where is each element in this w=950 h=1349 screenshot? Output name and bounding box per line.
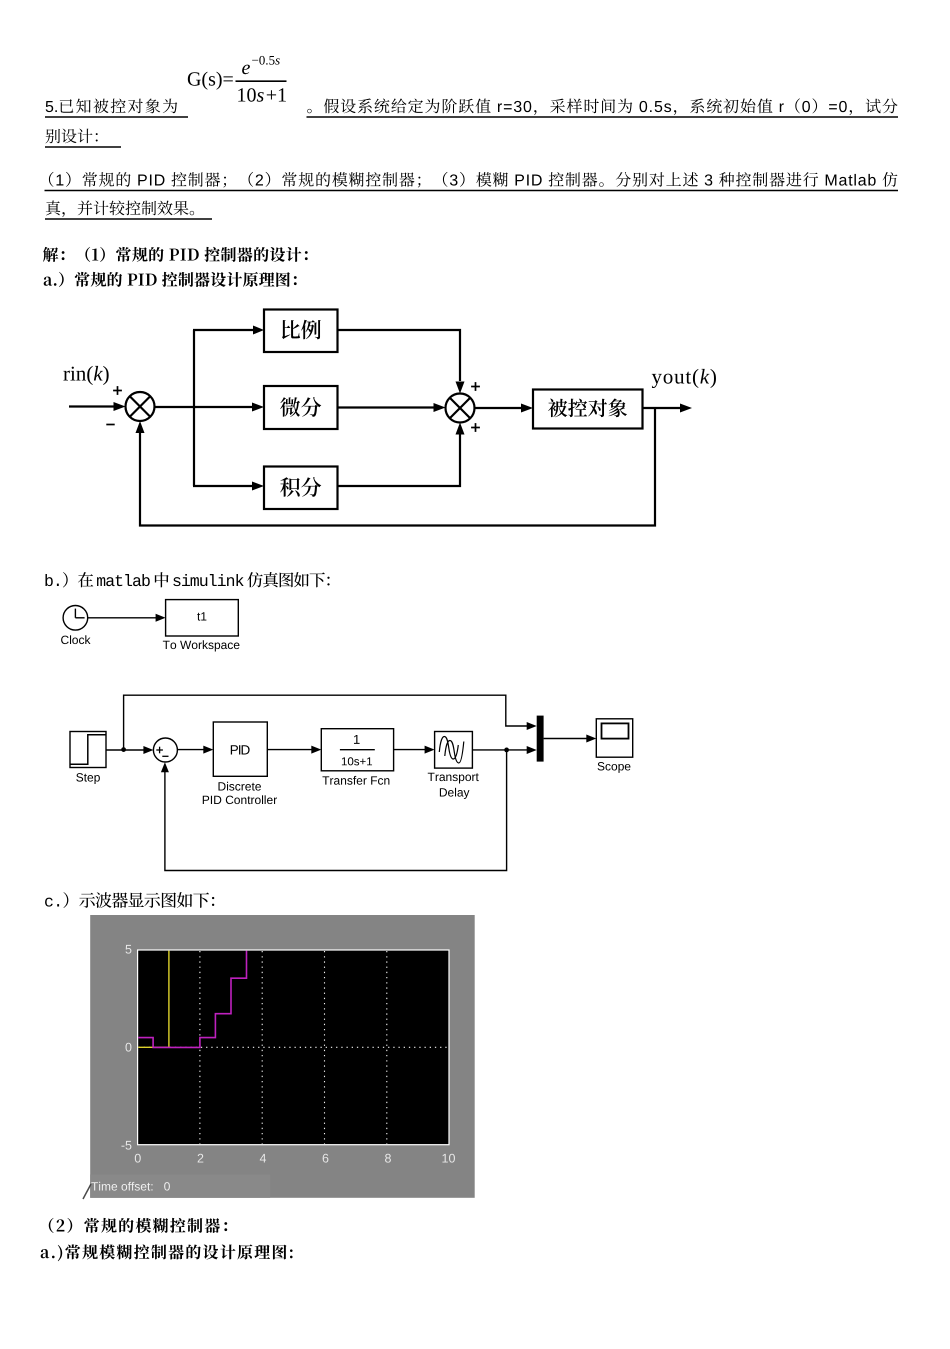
wire proportional to S2	[338, 330, 465, 394]
clock block	[63, 606, 88, 631]
mux bar	[537, 716, 544, 762]
grid line x=8	[386, 951, 388, 1144]
wire mux to scope	[544, 735, 597, 743]
wire S1 to branch and derivative box	[155, 403, 265, 412]
xtick 2	[198, 1154, 204, 1163]
transport delay block	[435, 732, 473, 769]
line1 right: assume step r=30	[307, 98, 897, 115]
xtick 4	[260, 1154, 266, 1163]
wire plant output	[643, 404, 693, 413]
wire S2 to plant	[475, 404, 534, 413]
S1 plus sign	[113, 386, 122, 395]
formula G(s)=	[188, 72, 233, 90]
grid line y=0	[139, 1046, 449, 1048]
xtick 10	[442, 1154, 455, 1163]
label Transport	[428, 773, 479, 784]
label yout(k)	[652, 369, 716, 388]
label Step	[76, 773, 100, 784]
label Transfer Fcn	[322, 776, 389, 785]
xtick 0	[135, 1154, 141, 1163]
formula denominator 10s+1	[238, 88, 286, 101]
proportional box BiLi	[264, 310, 338, 353]
junction dot step branch	[121, 747, 126, 752]
line b.) matlab simulink	[45, 572, 329, 587]
xtick 6	[323, 1154, 329, 1163]
underline line1 right	[307, 116, 899, 118]
line6 a.) PID principle diagram	[44, 272, 297, 287]
sum circle simulink	[153, 738, 177, 762]
underline line2	[45, 146, 121, 148]
formula exponent -0.5s	[252, 56, 280, 65]
grid line x=4	[261, 951, 263, 1144]
underline line1 left	[45, 116, 188, 118]
wire integral to S2	[338, 423, 465, 487]
feedback wire simulink	[161, 750, 507, 871]
label Discrete	[218, 782, 260, 791]
label Clock	[61, 635, 90, 644]
wire branch to integral box	[193, 482, 264, 491]
formula fraction bar	[236, 80, 287, 82]
label rin(k)	[63, 366, 108, 385]
label WeiFen	[280, 397, 321, 417]
to-workspace block t1	[166, 600, 239, 636]
wire transfer fcn to transport delay	[394, 746, 435, 754]
wire derivative to S2	[338, 403, 446, 412]
summing junction S1	[126, 392, 155, 421]
wire step to sum	[106, 746, 153, 754]
line1 left: 5.already-known plant	[46, 99, 178, 114]
scope plot area	[138, 950, 449, 1145]
label denominator 10s+1	[342, 757, 372, 765]
line a.) fuzzy principle diagram	[41, 1244, 293, 1261]
label BiLi	[282, 320, 321, 340]
plant box BeiKongDuiXiang	[533, 390, 643, 429]
discrete PID controller block	[213, 722, 267, 776]
wire PID to transfer fcn	[267, 746, 321, 754]
line2 bie-sheji	[46, 129, 98, 144]
label Delay	[440, 788, 470, 799]
line (2) fuzzy controller	[49, 1218, 227, 1233]
ytick 0	[125, 1043, 131, 1052]
line c.) scope display	[45, 892, 214, 908]
wire transport delay to mux	[472, 746, 536, 754]
S2 plus sign top	[471, 382, 480, 391]
line5 jie:(1) PID design	[43, 247, 308, 262]
label PID Controller	[203, 795, 277, 804]
underline line4	[45, 218, 212, 220]
grid line x=6	[324, 951, 326, 1144]
summing junction S2	[446, 394, 475, 423]
label JiFen	[280, 477, 321, 497]
wire sum to PID	[178, 746, 213, 754]
junction dot feedback	[504, 748, 509, 753]
time offset readout band	[90, 1175, 270, 1198]
label Time offset: 0	[91, 1182, 170, 1191]
magenta staircase trace	[138, 951, 246, 1048]
underline line3	[45, 190, 899, 192]
transfer fcn block	[321, 729, 393, 771]
line4 zhen compare effects	[46, 201, 194, 218]
scope window background	[90, 915, 475, 1198]
xtick 8	[385, 1154, 391, 1163]
integral box JiFen	[264, 467, 338, 510]
label Scope	[598, 762, 631, 773]
derivative box WeiFen	[264, 386, 338, 429]
label numerator 1	[354, 735, 360, 744]
label PID	[231, 745, 250, 754]
wire clock to workspace	[87, 614, 165, 622]
label To Workspace	[163, 640, 240, 651]
step block	[70, 732, 106, 768]
ytick -5	[121, 1141, 131, 1150]
wire step branch to mux top	[124, 695, 537, 749]
label BeiKongDuiXiang	[548, 399, 627, 418]
feedback wire diagram1	[136, 408, 656, 526]
wire input to S1	[69, 402, 126, 411]
corner slash mark	[83, 1184, 91, 1199]
grid line x=2	[199, 951, 201, 1144]
S2 plus sign bottom	[471, 423, 480, 432]
ytick 5	[126, 945, 132, 954]
wire branch to proportional box	[193, 326, 264, 335]
S1 minus sign	[106, 424, 114, 426]
branch vertical wire	[193, 330, 195, 486]
formula numerator e	[242, 65, 250, 75]
label t1	[197, 612, 206, 620]
yellow step trace	[138, 951, 169, 1048]
line3 (1)(2)(3) controllers	[49, 172, 897, 188]
scope block	[596, 719, 632, 757]
